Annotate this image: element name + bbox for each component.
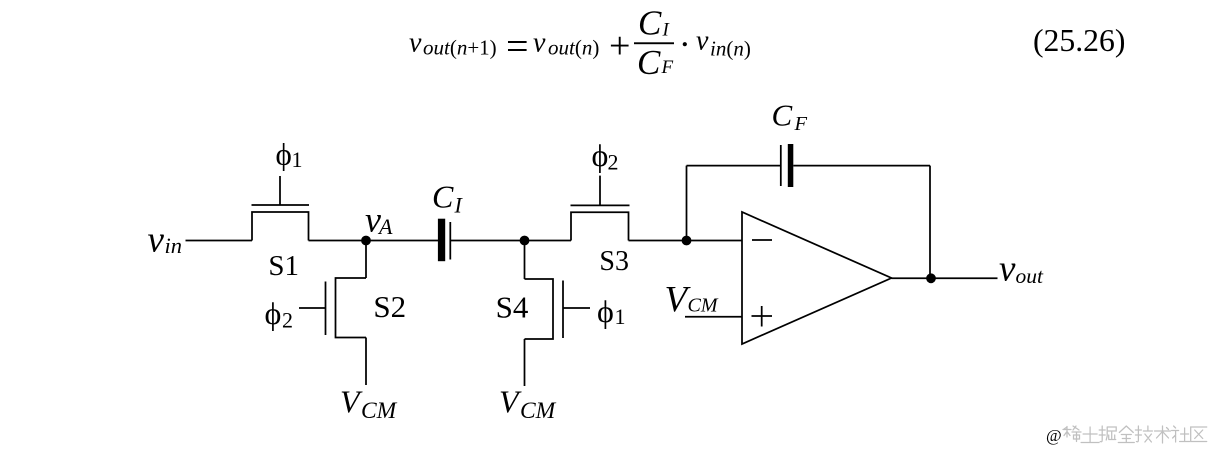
svg-text:(25.26): (25.26) bbox=[1033, 23, 1125, 58]
transistor S3 gate bar bbox=[571, 204, 630, 206]
svg-text:S3: S3 bbox=[599, 246, 629, 277]
svg-text:2: 2 bbox=[282, 308, 293, 333]
svg-text:v: v bbox=[533, 28, 546, 59]
wire: feedback down to output node bbox=[929, 166, 931, 279]
svg-text:CM: CM bbox=[361, 398, 398, 424]
wire: C_I right plate to node B bbox=[450, 240, 524, 242]
wire: feedback top right segment from C_F bbox=[793, 165, 930, 167]
watermark glyph shu bbox=[1155, 426, 1171, 443]
watermark glyph tu bbox=[1081, 427, 1099, 443]
svg-text:v: v bbox=[409, 28, 422, 59]
svg-text:S4: S4 bbox=[496, 290, 529, 325]
equation term v_out(n+1) bbox=[409, 28, 497, 60]
svg-text:in(n): in(n) bbox=[710, 37, 751, 61]
transistor S4 channel/body bbox=[525, 279, 554, 339]
label C_F bbox=[772, 98, 808, 136]
svg-text:C: C bbox=[637, 43, 661, 82]
svg-text:ϕ: ϕ bbox=[592, 137, 609, 173]
svg-text:CM: CM bbox=[688, 295, 719, 317]
svg-text:=: = bbox=[506, 23, 529, 68]
svg-text:v: v bbox=[999, 249, 1016, 290]
wire: S2 gate lead bbox=[299, 307, 326, 309]
transistor S4 gate bar bbox=[562, 281, 564, 339]
capacitor C_I thin plate bbox=[449, 222, 451, 260]
svg-text:ϕ: ϕ bbox=[276, 137, 292, 172]
svg-text:C: C bbox=[432, 179, 454, 215]
label phi_2 of S3 bbox=[592, 137, 619, 175]
wire: op-amp output to v_out bbox=[892, 277, 998, 279]
capacitor C_F thick plate bbox=[788, 144, 794, 187]
node A junction dot bbox=[361, 236, 371, 246]
transistor S3 channel/body bbox=[571, 212, 629, 240]
wire: S1 drain to node A and on to C_I bbox=[309, 240, 439, 242]
svg-text:v: v bbox=[148, 220, 165, 261]
svg-text:out(n): out(n) bbox=[548, 36, 599, 60]
wire: node B down to S4 drain bbox=[524, 241, 526, 280]
node B junction dot bbox=[520, 236, 530, 246]
svg-text:F: F bbox=[794, 113, 808, 135]
svg-text:in: in bbox=[165, 233, 183, 258]
watermark glyph qu bbox=[1191, 427, 1207, 442]
op-amp U1 triangle bbox=[742, 212, 892, 344]
transistor S1 gate bar bbox=[252, 204, 310, 206]
label v_out bbox=[999, 249, 1044, 290]
svg-text:A: A bbox=[377, 214, 393, 239]
op-amp plus sign bbox=[752, 306, 773, 327]
wire: S2 source down to V_CM bbox=[365, 338, 367, 386]
label v_in bbox=[148, 220, 183, 261]
svg-text:CM: CM bbox=[520, 398, 557, 424]
watermark glyph jue bbox=[1099, 426, 1116, 442]
wire: feedback top left segment to C_F bbox=[687, 165, 781, 167]
transistor S1 channel/body bbox=[252, 212, 309, 241]
svg-text:out: out bbox=[1016, 264, 1045, 288]
svg-text:+: + bbox=[609, 25, 630, 67]
svg-text:C: C bbox=[638, 4, 662, 43]
label V_CM below S2 bbox=[340, 384, 398, 425]
wire: S3 gate lead bbox=[599, 176, 601, 206]
svg-text:1: 1 bbox=[292, 147, 303, 172]
svg-text:@: @ bbox=[1046, 426, 1062, 445]
equation term v_out(n) bbox=[533, 28, 599, 60]
equation fraction denominator C_F bbox=[637, 43, 674, 82]
wire: S3 drain to node C bbox=[629, 240, 687, 242]
equation multiplication dot bbox=[683, 42, 687, 46]
label C_I bbox=[432, 179, 464, 218]
label V_CM at op-amp noninverting input bbox=[665, 280, 719, 321]
wire: S1 gate lead bbox=[279, 176, 281, 205]
output node junction dot bbox=[926, 273, 936, 283]
label phi_1 of S1 bbox=[276, 137, 303, 173]
svg-text:C: C bbox=[772, 98, 793, 133]
wire: V_CM to op-amp noninverting input bbox=[685, 316, 742, 318]
watermark glyph she bbox=[1172, 426, 1190, 442]
equation fraction numerator C_I bbox=[638, 4, 671, 43]
equation term v_in(n) bbox=[696, 25, 751, 60]
svg-text:F: F bbox=[661, 57, 674, 78]
svg-text:ϕ: ϕ bbox=[265, 295, 282, 331]
svg-text:out(n+1): out(n+1) bbox=[423, 36, 497, 60]
equation fraction bar bbox=[634, 42, 674, 44]
wire: feedback up from node C bbox=[686, 166, 688, 241]
watermark glyph ji bbox=[1135, 426, 1152, 442]
wire: node A down to S2 drain bbox=[365, 241, 367, 279]
svg-text:S1: S1 bbox=[268, 250, 299, 282]
label v_A at node A bbox=[365, 200, 393, 240]
node C junction dot bbox=[682, 236, 692, 246]
watermark glyph jin bbox=[1118, 426, 1134, 443]
capacitor C_I thick plate bbox=[438, 219, 445, 262]
wire: node B to S3 source bbox=[525, 240, 572, 242]
wire: node C to op-amp inverting input bbox=[687, 240, 743, 242]
transistor S2 gate bar bbox=[325, 282, 327, 336]
svg-text:S2: S2 bbox=[373, 289, 406, 324]
transistor S2 channel/body bbox=[336, 278, 367, 338]
label phi_2 of S2 bbox=[265, 295, 294, 333]
svg-text:ϕ: ϕ bbox=[597, 293, 614, 329]
wire: S4 gate lead bbox=[563, 307, 590, 309]
svg-text:2: 2 bbox=[608, 150, 619, 175]
wire: v_in to S1 source bbox=[186, 240, 253, 242]
label phi_1 of S4 bbox=[597, 293, 626, 329]
svg-text:1: 1 bbox=[615, 304, 626, 329]
svg-text:v: v bbox=[696, 25, 709, 56]
op-amp minus sign bbox=[752, 239, 772, 241]
watermark glyph xi bbox=[1063, 426, 1081, 442]
label V_CM below S4 bbox=[499, 384, 557, 425]
capacitor C_F thin plate bbox=[780, 145, 782, 186]
watermark @juejin community bbox=[1046, 426, 1207, 445]
wire: S4 source down to V_CM bbox=[524, 339, 526, 386]
